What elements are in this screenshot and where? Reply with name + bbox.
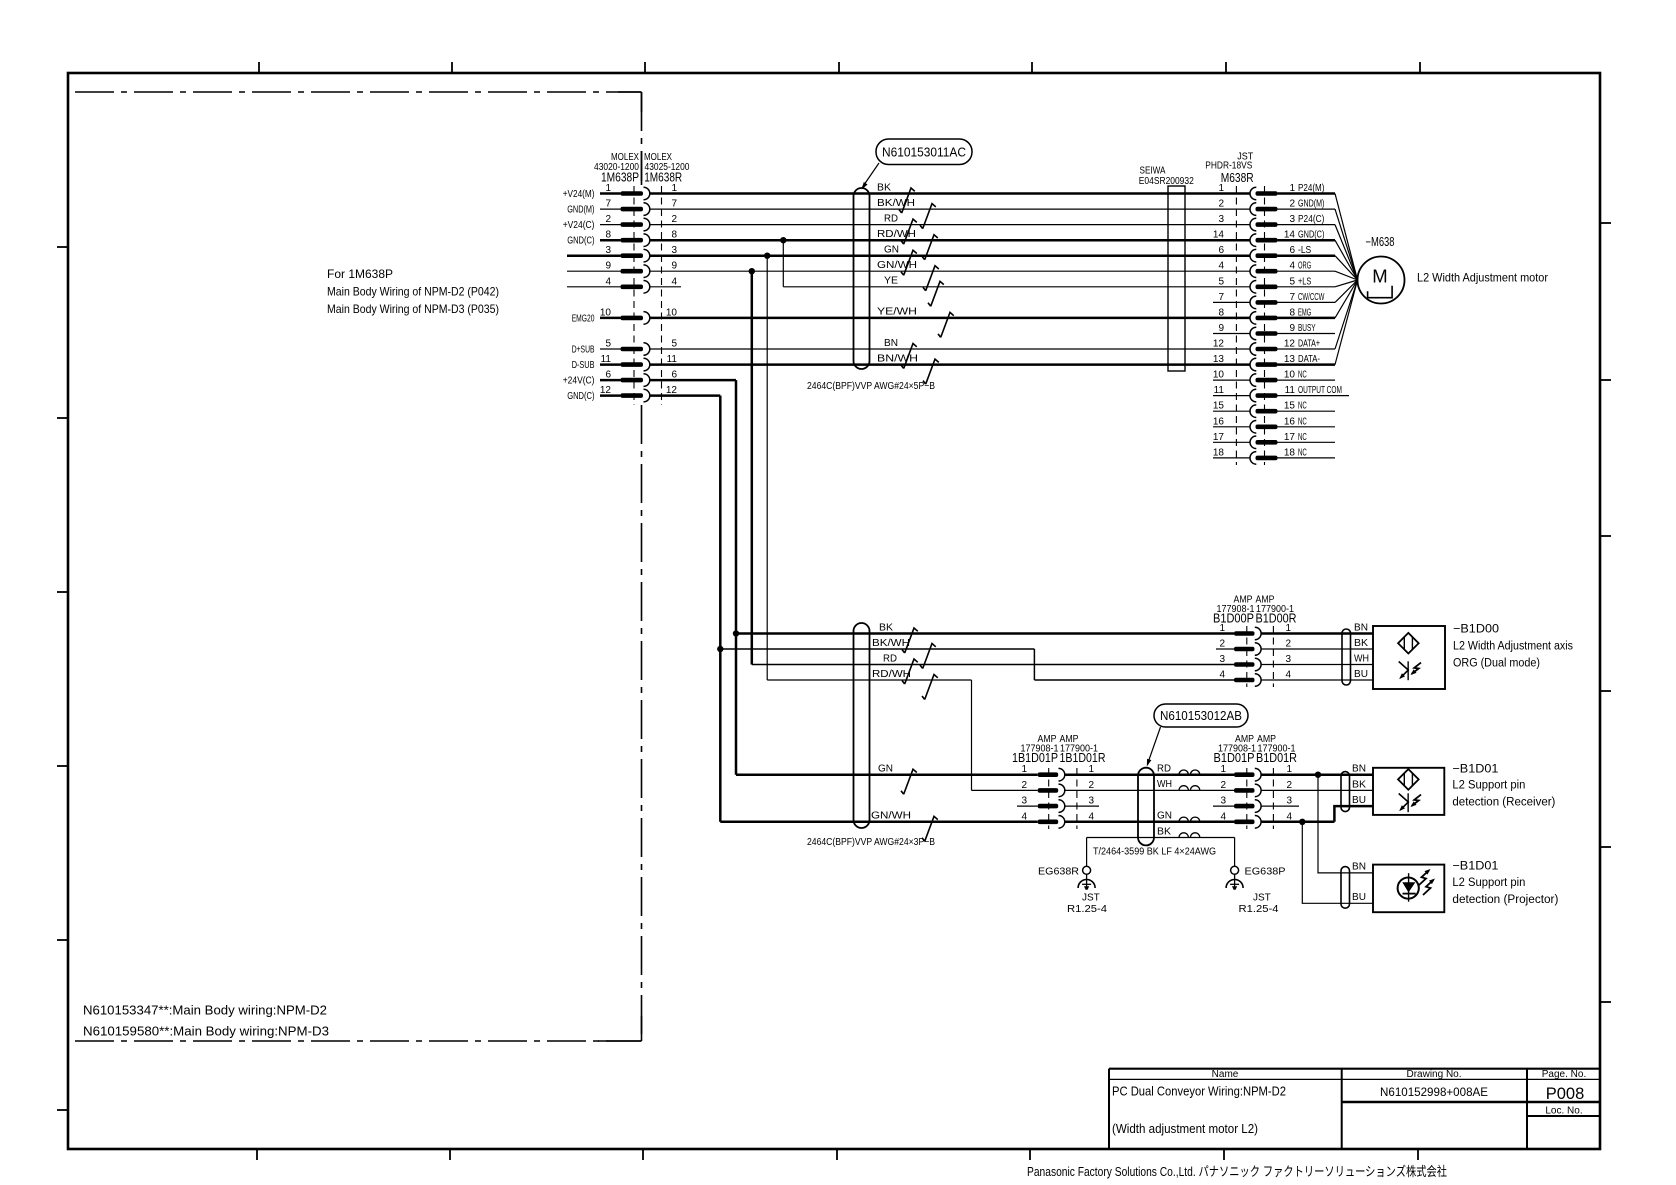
wire vertical tap GN down	[766, 256, 768, 680]
wire YE/WH EMG20 to M638R-8	[650, 317, 1250, 320]
wire RD/WH run	[767, 679, 971, 681]
svg-text:7: 7	[1218, 292, 1224, 303]
svg-text:2: 2	[1218, 199, 1224, 210]
svg-text:17: 17	[1213, 432, 1225, 443]
svg-text:For 1M638P: For 1M638P	[327, 267, 393, 281]
svg-text:RD: RD	[884, 213, 898, 224]
connector M638R pin 3 P24(C)	[1218, 214, 1357, 280]
svg-text:NC: NC	[1298, 370, 1307, 381]
node junction BN	[1315, 772, 1321, 778]
svg-text:Name: Name	[1212, 1069, 1239, 1080]
wire M638R pin 14 to motor	[1335, 240, 1358, 280]
wire M638R pin 4 to motor	[1335, 271, 1358, 280]
svg-text:R1.25-4: R1.25-4	[1067, 904, 1107, 915]
svg-text:DATA+: DATA+	[1298, 339, 1320, 350]
connector M638R pin 8 EMG	[1218, 280, 1357, 324]
connector 1B1D01 pin 3	[1017, 796, 1099, 813]
wire RD 1M638R-2 to M638R-3	[650, 224, 1250, 226]
svg-text:+LS: +LS	[1298, 276, 1311, 287]
dashed mating line B1D01P	[1246, 768, 1248, 829]
svg-text:12: 12	[1284, 339, 1296, 350]
svg-text:GN: GN	[884, 245, 899, 256]
svg-text:−B1D01: −B1D01	[1452, 761, 1498, 775]
node junction RD/WH tap	[780, 237, 786, 243]
wire GN to 1B1D01P-1	[736, 773, 1038, 776]
wire stub 1M638R-4	[650, 286, 681, 288]
ground EG638R	[1083, 866, 1091, 874]
svg-text:4: 4	[1218, 261, 1224, 272]
svg-text:Panasonic Factory Solutions Co: Panasonic Factory Solutions Co.,Ltd. パナソ…	[1027, 1164, 1447, 1179]
svg-text:Drawing No.: Drawing No.	[1406, 1069, 1461, 1080]
svg-text:N610159580**:Main Body wiring:: N610159580**:Main Body wiring:NPM-D3	[83, 1025, 329, 1039]
motor frame mark	[1368, 286, 1393, 298]
svg-text:BN: BN	[1352, 764, 1366, 775]
connector M638R pin 18 NC	[1213, 447, 1335, 464]
wire pin9 stub	[567, 270, 621, 272]
connector 1M638P pin 6 signal +24V(C)	[563, 370, 678, 387]
svg-text:BU: BU	[1352, 795, 1366, 806]
connector 1M638P pin 2 signal +V24(C)	[563, 214, 678, 231]
svg-text:16: 16	[1213, 416, 1225, 427]
wire vertical tap RD/WH to YE	[782, 240, 784, 287]
svg-text:18: 18	[1284, 447, 1296, 458]
leader line to cable	[863, 163, 880, 187]
svg-text:1: 1	[1218, 183, 1224, 194]
dashed mating line of 1M638P	[633, 186, 635, 405]
connector B1D00 pin 3	[1219, 654, 1373, 671]
svg-text:16: 16	[1284, 416, 1296, 427]
connector B1D01 pin 3	[1213, 796, 1292, 813]
connector B1D00 pin 1	[1219, 623, 1373, 640]
svg-text:BK: BK	[1157, 826, 1171, 837]
svg-text:3: 3	[1289, 214, 1295, 225]
svg-text:2: 2	[605, 214, 611, 225]
svg-text:Main Body Wiring of NPM-D2 (P0: Main Body Wiring of NPM-D2 (P042)	[327, 285, 499, 299]
wire BK/WH run	[720, 648, 1034, 650]
svg-text:B1D01P: B1D01P	[1214, 751, 1255, 765]
svg-text:D+SUB: D+SUB	[572, 345, 595, 356]
svg-text:2464C(BPF)VVP AWG#24×3P−B: 2464C(BPF)VVP AWG#24×3P−B	[807, 837, 935, 848]
svg-text:ORG (Dual mode): ORG (Dual mode)	[1453, 658, 1540, 670]
svg-text:GN: GN	[878, 764, 893, 775]
svg-text:BN: BN	[884, 338, 898, 349]
svg-text:BN: BN	[1352, 862, 1366, 873]
svg-text:M638R: M638R	[1221, 171, 1254, 185]
svg-text:1: 1	[1220, 764, 1226, 775]
svg-text:JST: JST	[1082, 893, 1100, 904]
wire BU step to receiver	[1334, 806, 1373, 822]
twist bumps BK wire	[1179, 833, 1188, 838]
node junction GND/BKWH	[717, 646, 723, 652]
connector M638R pin 14 GND(C)	[1213, 230, 1358, 280]
connector 1B1D01 pin 1	[1021, 764, 1094, 781]
svg-text:1B1D01P: 1B1D01P	[1012, 751, 1058, 765]
wire EMG20 pin10 stub	[600, 317, 621, 320]
svg-text:E04SR200932: E04SR200932	[1139, 176, 1194, 187]
svg-text:GND(C): GND(C)	[567, 391, 594, 402]
svg-text:+24V(C): +24V(C)	[563, 376, 595, 387]
svg-text:3: 3	[1220, 796, 1226, 807]
sensor cable capsule (receiver)	[1341, 772, 1350, 812]
svg-text:ORG: ORG	[1298, 261, 1311, 272]
svg-text:BK: BK	[877, 182, 891, 193]
svg-text:1B1D01R: 1B1D01R	[1060, 751, 1106, 765]
sensor icon light rays (projector)	[1419, 870, 1430, 885]
wire BK ground link	[1087, 837, 1235, 839]
svg-text:−B1D01: −B1D01	[1452, 859, 1498, 873]
svg-text:CW/CCW: CW/CCW	[1298, 292, 1325, 303]
svg-text:14: 14	[1213, 230, 1225, 241]
wire +V24(C) pin2 stub	[600, 224, 621, 226]
sensor icon diamond (B1D00)	[1398, 633, 1419, 654]
svg-text:EG638R: EG638R	[1038, 866, 1079, 878]
wire pin4 stub	[567, 286, 621, 288]
svg-text:NC: NC	[1298, 401, 1307, 412]
wire BN B1D01R-1 to receiver	[1261, 773, 1373, 776]
wire M638R pin 12 to motor	[1335, 280, 1358, 349]
cable sheath capsule (cable 2)	[854, 623, 870, 828]
svg-text:3: 3	[1219, 654, 1225, 665]
svg-text:2: 2	[1220, 780, 1226, 791]
wire GN 1M638R-3 to M638R-6	[650, 254, 1250, 257]
node junction GN/WH tap	[749, 268, 755, 274]
connector M638R pin 16 NC	[1213, 416, 1335, 433]
svg-text:NC: NC	[1298, 447, 1307, 458]
svg-text:D-SUB: D-SUB	[572, 360, 595, 371]
svg-text:YE: YE	[884, 276, 898, 287]
svg-text:BK: BK	[879, 622, 893, 633]
motor M638 circle	[1358, 257, 1405, 304]
wire GN/WH to 1B1D01P-4	[720, 821, 1037, 824]
svg-text:3: 3	[1021, 796, 1027, 807]
svg-text:RD/WH: RD/WH	[877, 229, 916, 240]
connector M638R pin 10 NC	[1213, 370, 1335, 387]
svg-text:WH: WH	[1354, 653, 1369, 664]
svg-text:SEIWA: SEIWA	[1140, 166, 1166, 177]
svg-text:PHDR-18VS: PHDR-18VS	[1205, 161, 1252, 172]
wire D-SUB pin11 stub	[600, 363, 621, 366]
wire M638R pin 8 to motor	[1335, 280, 1358, 318]
svg-text:YE/WH: YE/WH	[877, 307, 917, 318]
svg-text:2: 2	[671, 214, 677, 225]
wire +24V(C) run	[650, 379, 736, 382]
svg-text:11: 11	[1214, 385, 1225, 396]
wire BK/WH drop to B1D00P-4	[1033, 649, 1035, 680]
wire vertical GND(C) down	[719, 396, 722, 822]
wire B1D01R-4 run	[1261, 821, 1334, 824]
svg-text:BK/WH: BK/WH	[877, 198, 915, 209]
dashed mating line B1D00P	[1246, 626, 1248, 687]
connector 1M638P pin 3	[605, 245, 677, 262]
connector M638R pin 11 OUTPUT COM	[1213, 385, 1349, 402]
wire GN/WH 1M638R-9 to M638R-4	[650, 270, 1250, 272]
svg-text:9: 9	[1218, 323, 1224, 334]
svg-text:2: 2	[1088, 780, 1094, 791]
svg-text:11: 11	[1285, 385, 1296, 396]
node junction BU	[1299, 819, 1305, 825]
svg-text:15: 15	[1213, 401, 1225, 412]
connector M638R pin 6 -LS	[1218, 245, 1357, 280]
svg-text:+V24(C): +V24(C)	[563, 220, 595, 231]
sensor B1D01 receiver box	[1373, 768, 1444, 815]
svg-text:1: 1	[1021, 764, 1027, 775]
sensor cable capsule (projector)	[1341, 867, 1350, 909]
svg-text:L2 Support pin: L2 Support pin	[1452, 877, 1525, 889]
sensor B1D00 box	[1373, 626, 1445, 689]
svg-text:BU: BU	[1354, 669, 1368, 680]
cable sheath capsule (cable 3)	[1138, 768, 1154, 846]
wire BN/WH D-SUB to M638R-13	[650, 363, 1250, 366]
svg-text:GN/WH: GN/WH	[871, 811, 911, 822]
connector 1M638P pin 5 signal D+SUB	[572, 339, 678, 356]
connector B1D00 pin 2	[1216, 639, 1373, 656]
wire D+SUB pin5 stub	[600, 348, 621, 350]
svg-text:5: 5	[605, 339, 611, 350]
wire M638R pin 13 to motor	[1335, 280, 1358, 365]
wire M638R pin 5 to motor	[1335, 280, 1358, 287]
dashed mating line of 1M638R	[661, 186, 663, 405]
svg-text:2464C(BPF)VVP AWG#24×5P−B: 2464C(BPF)VVP AWG#24×5P−B	[807, 381, 935, 392]
connector M638R pin 12 DATA+	[1213, 280, 1358, 355]
wire RD to B1D00P-3	[752, 664, 1234, 666]
svg-text:GND(M): GND(M)	[1298, 199, 1324, 210]
svg-text:3: 3	[1218, 214, 1224, 225]
svg-text:9: 9	[1289, 323, 1295, 334]
connector 1M638P pin 11 signal D-SUB	[572, 354, 678, 371]
svg-text:RD: RD	[883, 653, 897, 664]
balloon N610153011AC	[876, 139, 972, 165]
wire stub B1D01R-3	[1261, 805, 1299, 807]
sensor icon photo receiver (B1D00)	[1407, 661, 1409, 680]
svg-text:EMG20: EMG20	[572, 313, 595, 324]
svg-text:R1.25-4: R1.25-4	[1239, 904, 1279, 915]
wire BK B1D01R-2 to receiver	[1261, 789, 1373, 791]
sensor icon LED projector	[1398, 878, 1419, 899]
svg-text:N610153347**:Main Body wiring:: N610153347**:Main Body wiring:NPM-D2	[83, 1004, 327, 1018]
svg-text:4: 4	[671, 276, 677, 287]
wire RD/WH drop to 1B1D01P-2	[971, 680, 973, 790]
svg-text:5: 5	[1218, 276, 1224, 287]
svg-text:NC: NC	[1298, 432, 1307, 443]
svg-text:BK: BK	[1352, 779, 1366, 790]
connector B1D01 pin 2	[1220, 780, 1292, 797]
leader line to cable 3	[1148, 727, 1161, 764]
connector M638R pin 4 ORG	[1218, 261, 1357, 280]
svg-text:12: 12	[1213, 339, 1225, 350]
svg-text:Main Body Wiring of NPM-D3 (P0: Main Body Wiring of NPM-D3 (P035)	[327, 302, 499, 316]
svg-text:detection (Receiver): detection (Receiver)	[1452, 797, 1555, 809]
wire M638R pin 1 to motor	[1335, 194, 1358, 281]
svg-text:GND(C): GND(C)	[567, 236, 594, 247]
dashed mating line 1B1D01P	[1048, 768, 1050, 829]
svg-text:5: 5	[671, 339, 677, 350]
node junction +24V/BK	[733, 630, 739, 636]
wire GND(C) pin8 stub	[600, 239, 621, 242]
connector 1M638P pin 1 signal +V24(M)	[563, 183, 678, 200]
connector M638R pin 7 CW/CCW	[1213, 280, 1358, 309]
dashed mating line of M638R cable side	[1235, 186, 1237, 465]
svg-text:4: 4	[1219, 670, 1225, 681]
connector 1M638P pin 8 signal GND(C)	[567, 230, 677, 247]
wire +V24(M) pin1 stub	[600, 192, 621, 195]
connector 1M638P pin 7 signal GND(M)	[567, 199, 677, 216]
connector 1M638P pin 4	[605, 276, 677, 293]
balloon N610153012AB	[1154, 704, 1248, 727]
dashed mating line B1D01R	[1272, 768, 1274, 829]
svg-text:10: 10	[1213, 370, 1225, 381]
connector 1B1D01 pin 4	[1021, 811, 1094, 828]
svg-text:13: 13	[1213, 354, 1225, 365]
svg-text:6: 6	[1218, 245, 1224, 256]
svg-text:2: 2	[1286, 780, 1292, 791]
svg-text:17: 17	[1284, 432, 1296, 443]
wire RD/WH 1M638R-8 to M638R-14	[650, 239, 1250, 242]
svg-text:3: 3	[1088, 796, 1094, 807]
svg-text:3: 3	[1286, 796, 1292, 807]
svg-text:GND(M): GND(M)	[567, 205, 594, 216]
wire WH 1B1D01R-2 to B1D01P-2	[1065, 789, 1234, 791]
svg-text:BK/WH: BK/WH	[872, 638, 910, 649]
svg-text:18: 18	[1213, 447, 1225, 458]
svg-text:2: 2	[1219, 639, 1225, 650]
connector 1M638P pin 9	[605, 261, 677, 278]
svg-text:GN: GN	[1157, 811, 1172, 822]
ferrite core SEIWA E04SR200932	[1168, 186, 1185, 371]
svg-text:(Width adjustment motor L2): (Width adjustment motor L2)	[1112, 1122, 1258, 1136]
svg-text:N610153012AB: N610153012AB	[1160, 709, 1242, 723]
svg-text:10: 10	[1284, 370, 1296, 381]
connector B1D01 pin 4	[1220, 811, 1292, 828]
svg-text:9: 9	[605, 261, 611, 272]
svg-text:detection (Projector): detection (Projector)	[1452, 894, 1558, 906]
connector 1M638P pin 10 signal EMG20	[572, 307, 678, 324]
svg-text:Page. No.: Page. No.	[1542, 1069, 1586, 1080]
svg-text:BU: BU	[1352, 892, 1366, 903]
svg-text:4: 4	[605, 276, 611, 287]
svg-text:OUTPUT COM: OUTPUT COM	[1298, 385, 1342, 396]
wire BK to B1D00P-1	[736, 632, 1234, 635]
svg-text:8: 8	[1218, 307, 1224, 318]
svg-text:Loc. No.: Loc. No.	[1545, 1106, 1582, 1117]
wire vertical +24V(C) down	[735, 380, 738, 775]
svg-text:2: 2	[1021, 780, 1027, 791]
connector B1D00 pin 4	[1219, 670, 1373, 687]
wire vertical tap GN/WH down	[751, 271, 754, 664]
dash-dot boundary of external wiring (For 1M638P)	[75, 91, 642, 93]
sensor icon photo receiver (receiver)	[1407, 793, 1409, 812]
wire BK 1M638R-1 to M638R-1	[650, 192, 1250, 195]
connector M638R pin 15 NC	[1213, 401, 1335, 418]
wire M638R pin 3 to motor	[1335, 225, 1358, 280]
connector 1M638P pin 12 signal GND(C)	[567, 385, 677, 402]
wire BN drop to projector	[1318, 775, 1373, 873]
wire BU drop to projector	[1302, 822, 1373, 904]
svg-text:2: 2	[1285, 639, 1291, 650]
dashed mating line B1D00R	[1272, 626, 1274, 687]
wire M638R pin 2 to motor	[1335, 209, 1358, 280]
svg-text:EG638P: EG638P	[1245, 866, 1286, 878]
node junction GN tap	[764, 253, 770, 259]
wire +24V(C) pin6 stub	[600, 379, 621, 382]
wire BK/WH 1M638R-7 to M638R-2	[650, 208, 1250, 210]
svg-text:JST: JST	[1253, 893, 1271, 904]
wire YE branch to M638R-5	[783, 286, 1250, 288]
svg-text:4: 4	[1220, 811, 1226, 822]
svg-text:RD/WH: RD/WH	[872, 669, 911, 680]
svg-text:2: 2	[1289, 199, 1295, 210]
wire GND(C) pin12 stub	[600, 394, 621, 397]
svg-text:P008: P008	[1546, 1085, 1585, 1103]
connector M638R pin 17 NC	[1213, 432, 1335, 449]
svg-text:−M638: −M638	[1366, 235, 1395, 249]
svg-text:−B1D00: −B1D00	[1453, 622, 1499, 636]
svg-text:7: 7	[605, 199, 611, 210]
wire BN D+SUB to M638R-12	[650, 348, 1250, 350]
svg-text:RD: RD	[1157, 764, 1171, 775]
wire M638R pin 6 to motor	[1335, 256, 1358, 280]
svg-text:BN: BN	[1354, 622, 1368, 633]
svg-text:7: 7	[671, 199, 677, 210]
sensor cable capsule B1D00	[1342, 629, 1351, 685]
svg-text:5: 5	[1289, 276, 1295, 287]
wire pin3 stub	[567, 254, 621, 257]
svg-text:3: 3	[1285, 654, 1291, 665]
svg-text:4: 4	[1285, 670, 1291, 681]
connector M638R pin 5 +LS	[1218, 276, 1357, 293]
wire GN 1B1D01R-4 to B1D01P-4	[1065, 821, 1234, 824]
svg-text:+V24(M): +V24(M)	[563, 189, 595, 200]
svg-text:P24(C): P24(C)	[1298, 214, 1324, 225]
svg-text:15: 15	[1284, 401, 1296, 412]
svg-text:GN/WH: GN/WH	[877, 260, 917, 271]
svg-text:BUSY: BUSY	[1298, 323, 1316, 334]
dashed mating line 1B1D01R	[1076, 768, 1078, 829]
connector M638R pin 13 DATA-	[1213, 280, 1358, 371]
svg-text:L2 Width Adjustment axis: L2 Width Adjustment axis	[1453, 641, 1573, 653]
svg-text:NC: NC	[1298, 416, 1307, 427]
ground EG638P	[1231, 866, 1239, 874]
sensor B1D01 projector box	[1373, 865, 1444, 913]
wire GND(C) run	[650, 394, 721, 397]
svg-text:9: 9	[671, 261, 677, 272]
svg-text:4: 4	[1021, 811, 1027, 822]
svg-text:L2 Support pin: L2 Support pin	[1452, 780, 1525, 792]
wire RD 1B1D01R-1 to B1D01P-1	[1065, 773, 1234, 776]
svg-text:M: M	[1372, 266, 1387, 287]
svg-text:T/2464-3599 BK LF 4×24AWG: T/2464-3599 BK LF 4×24AWG	[1093, 847, 1216, 858]
svg-text:BN/WH: BN/WH	[877, 353, 918, 364]
dashed mating line of M638R header side	[1264, 186, 1266, 465]
wire GND(M) pin7 stub	[600, 208, 621, 210]
svg-text:N610152998+008AE: N610152998+008AE	[1380, 1085, 1488, 1099]
connector B1D01 pin 1	[1220, 764, 1292, 781]
svg-text:L2 Width Adjustment motor: L2 Width Adjustment motor	[1417, 271, 1548, 285]
connector M638R pin 1 P24(M)	[1218, 183, 1357, 280]
svg-text:PC Dual Conveyor Wiring:NPM-D2: PC Dual Conveyor Wiring:NPM-D2	[1112, 1085, 1286, 1099]
sensor icon diamond (receiver)	[1398, 769, 1419, 790]
connector M638R pin 2 GND(M)	[1218, 199, 1357, 280]
connector M638R pin 9 BUSY	[1213, 323, 1335, 340]
connector 1B1D01 pin 2	[1021, 780, 1094, 797]
svg-text:4: 4	[1289, 261, 1295, 272]
wire M638R pin 7 to motor	[1335, 280, 1358, 302]
svg-text:N610153011AC: N610153011AC	[882, 146, 966, 160]
svg-text:B1D01R: B1D01R	[1256, 751, 1297, 765]
svg-text:7: 7	[1289, 292, 1295, 303]
svg-text:1: 1	[1219, 623, 1225, 634]
svg-text:WH: WH	[1157, 779, 1172, 790]
svg-text:BK: BK	[1354, 638, 1368, 649]
